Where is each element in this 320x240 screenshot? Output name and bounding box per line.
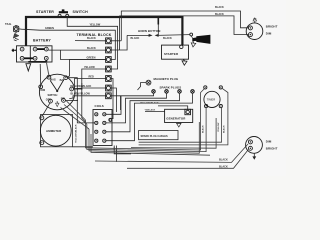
- svg-text:AMMETER: AMMETER: [46, 129, 62, 133]
- svg-text:SWITCH: SWITCH: [48, 94, 58, 97]
- wire A: terminal block to bright lamp: [121, 11, 248, 41]
- feeder diagonals to wraps: [61, 101, 90, 129]
- spark plug cables frame: [139, 131, 178, 140]
- wire row2 right stub to horn: [111, 35, 127, 50]
- wire row7 left stub: [69, 96, 105, 99]
- svg-text:BAT: BAT: [60, 79, 65, 82]
- ground arrow below tail lamp: [13, 32, 19, 41]
- svg-text:BRIGHT: BRIGHT: [266, 146, 278, 150]
- wire: bottom lamp 2: [127, 150, 248, 168]
- wire: coil box bottom drop 1: [114, 146, 131, 154]
- wire: yellow (starter switch to terminal block row 4): [67, 17, 117, 69]
- svg-text:SPARK PLUG CABLES: SPARK PLUG CABLES: [141, 135, 169, 138]
- ground arrow above top lamp: [253, 18, 257, 23]
- spark plug cable bundle line 2 (to timer UR): [139, 89, 228, 145]
- svg-text:BLACK: BLACK: [215, 6, 224, 9]
- svg-text:GENERATOR: GENERATOR: [166, 117, 186, 121]
- wire row5 left stub: [73, 79, 105, 89]
- GENERATOR box: [165, 109, 193, 122]
- wire: battery to terminal row 2: [48, 49, 105, 51]
- wire row4 left stub: [74, 69, 106, 89]
- plus mark left of battery: [12, 49, 16, 52]
- ground arrow below generator: [177, 123, 181, 128]
- tail lamp: [14, 25, 19, 32]
- spark plug cable 2: [106, 93, 167, 123]
- svg-text:BLACK: BLACK: [163, 37, 172, 40]
- svg-text:BLACK: BLACK: [131, 37, 140, 40]
- svg-text:YELLOW: YELLOW: [84, 66, 95, 69]
- svg-text:MAGNETO PLUG: MAGNETO PLUG: [154, 77, 179, 81]
- svg-text:STARTER: STARTER: [164, 52, 179, 56]
- wire: horn feed stub from cable: [157, 18, 159, 25]
- wire: bottom lamp 1: [95, 144, 248, 162]
- AMMETER: [40, 115, 73, 147]
- SWITCH dial: [39, 74, 75, 110]
- wire wrap G3: [89, 122, 199, 153]
- svg-text:BRIGHT: BRIGHT: [266, 24, 278, 28]
- wire: battery to switch (bat feed): [46, 62, 49, 75]
- wire: generator terminal up-left: [158, 106, 188, 110]
- svg-text:BLUE&YELLOW: BLUE&YELLOW: [71, 92, 91, 95]
- ground arrow below bottom lamp: [252, 153, 256, 159]
- svg-text:BLACK: BLACK: [219, 159, 228, 162]
- wire row6 left stub: [82, 87, 106, 89]
- spark plug 1: [152, 90, 156, 94]
- wire: main battery cable (battery to starter): [26, 17, 182, 46]
- switch ground arrow: [56, 101, 60, 106]
- svg-text:MAG: MAG: [50, 79, 56, 82]
- wire: row4 drop to coil wrap: [82, 83, 86, 122]
- svg-text:SWITCH: SWITCH: [73, 10, 89, 14]
- wire row7 right stub: [111, 96, 120, 110]
- junction dots at switch verticals: [77, 88, 78, 89]
- wire: ammeter to coils: [73, 146, 94, 148]
- headlamp (bottom right): [246, 137, 263, 154]
- wire row5 right to coils terminal: [111, 79, 113, 119]
- svg-text:SPARK PLUGS: SPARK PLUGS: [160, 86, 182, 90]
- svg-text:BLACK: BLACK: [87, 37, 96, 40]
- spark plug cable 4: [106, 93, 193, 141]
- spark plug cable 3: [106, 93, 180, 132]
- wire: switch BR stub: [65, 99, 77, 101]
- spark plug 2: [165, 90, 169, 94]
- horn: [190, 33, 211, 44]
- svg-text:TAIL: TAIL: [5, 22, 12, 26]
- ground arrow below battery: [26, 64, 31, 71]
- svg-text:OFF: OFF: [46, 98, 51, 101]
- spark plug cable bundle line 1 (to timer LR): [139, 108, 222, 143]
- wire: battery left to switch terminal: [39, 64, 42, 85]
- svg-text:GREEN: GREEN: [87, 56, 96, 59]
- wire: branch to row 3: [60, 50, 105, 59]
- wire row3 left stub: [67, 60, 105, 78]
- horn button wire with contact arrows: [127, 34, 190, 37]
- svg-text:DIM: DIM: [41, 89, 46, 92]
- wire: green (tail lamp to terminal block row 3): [19, 29, 116, 60]
- junction dots: [114, 147, 115, 148]
- svg-text:DIM: DIM: [266, 140, 272, 144]
- ground arrow below horn: [191, 41, 196, 47]
- headlamp (top right): [246, 23, 263, 40]
- ground arrow below starter: [182, 59, 187, 65]
- spark plug 4: [191, 90, 195, 94]
- battery: [17, 46, 53, 62]
- coil box: [93, 110, 112, 146]
- STARTER box: [162, 45, 189, 59]
- wire row1 right stub: [111, 40, 121, 42]
- spark plug 3: [178, 90, 182, 94]
- svg-text:STARTER: STARTER: [36, 10, 54, 14]
- battery ground wire: [28, 60, 46, 62]
- wire wrap G1 (coils to timer UL): [86, 89, 205, 150]
- svg-text:RED: RED: [89, 75, 94, 78]
- wire: switch lower right to coils: [68, 78, 95, 123]
- svg-text:TIMER: TIMER: [207, 98, 215, 102]
- svg-text:GREEN: GREEN: [45, 27, 54, 30]
- magneto plug: [138, 80, 151, 90]
- spark plug cable bundle line 3: [131, 118, 216, 148]
- svg-text:YELLOW: YELLOW: [218, 122, 220, 132]
- svg-text:YELLOW&BLACK: YELLOW&BLACK: [140, 102, 159, 105]
- TIMER: [204, 86, 223, 108]
- svg-text:COILS: COILS: [95, 104, 104, 108]
- wire wrap G4: [91, 134, 210, 155]
- svg-text:DIM: DIM: [266, 31, 272, 35]
- svg-text:BRI: BRI: [61, 98, 66, 101]
- svg-text:BLACK: BLACK: [222, 125, 225, 133]
- wire: generator left lead: [145, 111, 165, 113]
- wire: switch to ammeter: [42, 103, 50, 116]
- spark plug cable 1: [106, 93, 154, 114]
- svg-text:HORN BUTTON: HORN BUTTON: [138, 29, 160, 33]
- svg-text:BLACK: BLACK: [87, 47, 96, 50]
- starter switch button: [58, 9, 69, 17]
- wire B: to dim terminal of top lamp: [120, 16, 249, 50]
- svg-text:YELLOW&BLACK: YELLOW&BLACK: [75, 124, 78, 143]
- wire: coil box bottom drop 2: [115, 146, 117, 162]
- wire row6 right stub: [111, 88, 116, 112]
- wire wrap G2 (to timer LL): [87, 108, 206, 152]
- svg-text:BLACK: BLACK: [201, 125, 204, 133]
- terminal block strip: [106, 38, 112, 99]
- wire row1 left stub: [75, 40, 106, 42]
- wire: switch R stub: [74, 88, 82, 90]
- svg-text:Y&BLACK: Y&BLACK: [145, 108, 156, 111]
- svg-text:BATTERY: BATTERY: [33, 39, 51, 43]
